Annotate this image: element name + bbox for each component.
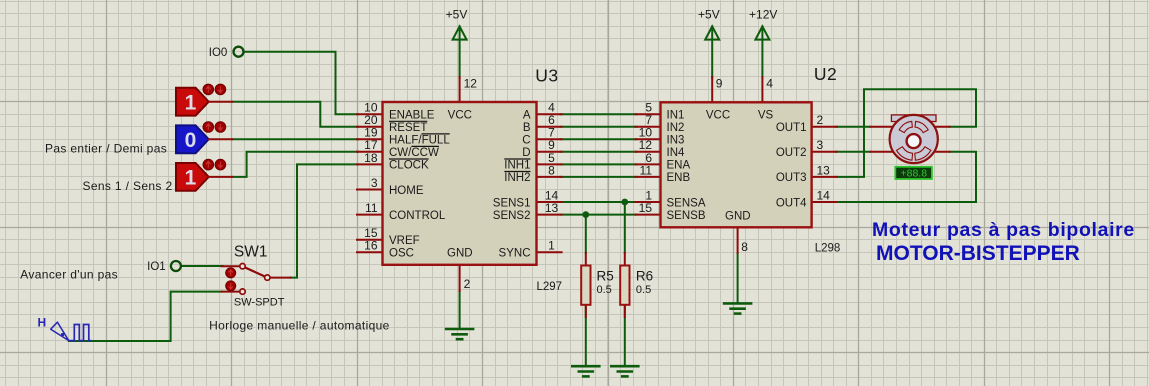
svg-text:Horloge manuelle / automatique: Horloge manuelle / automatique: [209, 319, 390, 333]
svg-text:18: 18: [364, 151, 378, 165]
svg-text:8: 8: [548, 163, 555, 177]
svg-text:INH1: INH1: [504, 160, 530, 172]
svg-text:IN1: IN1: [667, 110, 685, 122]
svg-text:MOTOR-BISTEPPER: MOTOR-BISTEPPER: [876, 242, 1080, 265]
svg-text:Sens 1 / Sens 2: Sens 1 / Sens 2: [83, 179, 173, 193]
svg-text:SENS1: SENS1: [493, 197, 531, 209]
svg-text:HOME: HOME: [389, 185, 424, 197]
svg-text:SENSA: SENSA: [667, 197, 706, 209]
svg-text:VREF: VREF: [389, 235, 420, 247]
svg-text:GND: GND: [725, 211, 751, 223]
svg-text:HALF/FULL: HALF/FULL: [389, 135, 450, 147]
svg-text:U2: U2: [814, 64, 837, 84]
svg-text:R5: R5: [597, 269, 614, 284]
svg-text:H: H: [38, 315, 47, 329]
svg-text:ENA: ENA: [667, 160, 691, 172]
svg-text:L298: L298: [815, 243, 841, 255]
svg-text:B: B: [523, 122, 531, 134]
svg-text:13: 13: [817, 163, 831, 177]
svg-text:3: 3: [817, 138, 824, 152]
svg-text:ENABLE: ENABLE: [389, 110, 435, 122]
svg-text:IO0: IO0: [209, 47, 228, 59]
svg-text:CONTROL: CONTROL: [389, 210, 446, 222]
svg-text:CLOCK: CLOCK: [389, 160, 429, 172]
svg-text:IN3: IN3: [667, 135, 685, 147]
svg-text:11: 11: [365, 201, 378, 215]
svg-text:VCC: VCC: [706, 110, 730, 122]
svg-text:SYNC: SYNC: [499, 248, 531, 260]
svg-text:OSC: OSC: [389, 248, 414, 260]
svg-text:12: 12: [464, 77, 478, 91]
svg-text:SENS2: SENS2: [493, 210, 531, 222]
svg-text:OUT3: OUT3: [776, 172, 807, 184]
svg-text:11: 11: [640, 163, 653, 177]
svg-text:CW/CCW: CW/CCW: [389, 147, 439, 159]
svg-text:+88.8: +88.8: [901, 168, 928, 180]
svg-text:ENB: ENB: [667, 172, 691, 184]
svg-text:3: 3: [371, 176, 378, 190]
svg-text:SW-SPDT: SW-SPDT: [234, 296, 285, 308]
svg-text:15: 15: [639, 201, 653, 215]
svg-text:U3: U3: [535, 66, 558, 86]
svg-text:0.5: 0.5: [597, 284, 612, 296]
svg-text:4: 4: [766, 77, 773, 91]
svg-text:9: 9: [716, 77, 723, 91]
svg-text:SENSB: SENSB: [667, 210, 706, 222]
svg-text:OUT1: OUT1: [776, 122, 807, 134]
svg-text:Moteur pas à pas bipolaire: Moteur pas à pas bipolaire: [872, 219, 1135, 241]
svg-text:Avancer d'un pas: Avancer d'un pas: [20, 268, 118, 282]
svg-text:VS: VS: [758, 110, 774, 122]
svg-text:8: 8: [741, 240, 748, 254]
svg-text:+12V: +12V: [749, 8, 777, 22]
svg-text:R6: R6: [636, 269, 653, 284]
svg-text:GND: GND: [447, 248, 473, 260]
svg-text:IO1: IO1: [147, 261, 166, 273]
svg-text:13: 13: [545, 201, 559, 215]
svg-text:Pas entier / Demi pas: Pas entier / Demi pas: [45, 142, 167, 156]
svg-text:L297: L297: [537, 281, 563, 293]
svg-text:OUT2: OUT2: [776, 147, 807, 159]
svg-text:A: A: [523, 110, 531, 122]
svg-text:VCC: VCC: [448, 110, 472, 122]
svg-text:IN2: IN2: [667, 122, 685, 134]
svg-text:14: 14: [817, 188, 831, 202]
svg-text:2: 2: [464, 277, 471, 291]
svg-text:SW1: SW1: [234, 244, 268, 261]
svg-text:2: 2: [817, 113, 824, 127]
svg-text:C: C: [522, 135, 530, 147]
svg-text:RESET: RESET: [389, 122, 427, 134]
svg-text:1: 1: [185, 167, 197, 190]
svg-text:D: D: [522, 147, 530, 159]
svg-text:IN4: IN4: [667, 147, 686, 159]
svg-text:+5V: +5V: [698, 8, 720, 22]
svg-text:0.5: 0.5: [636, 284, 651, 296]
svg-text:+5V: +5V: [446, 8, 468, 22]
svg-text:INH2: INH2: [504, 172, 530, 184]
svg-text:16: 16: [364, 239, 378, 253]
svg-text:0: 0: [185, 129, 197, 152]
svg-text:OUT4: OUT4: [776, 197, 807, 209]
svg-text:1: 1: [185, 91, 197, 114]
svg-text:1: 1: [548, 239, 555, 253]
